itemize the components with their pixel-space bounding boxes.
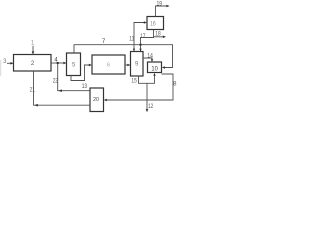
wire box 6 to box 9 left	[125, 64, 129, 66]
box 10	[148, 62, 162, 73]
box 9	[131, 52, 144, 77]
wire stream 13 from box 5 bottom to box 6 left	[71, 65, 91, 81]
svg-text:11: 11	[129, 37, 135, 43]
wire stream 4 from box 2 to box 5	[51, 62, 65, 64]
svg-text:16: 16	[150, 21, 156, 27]
svg-text:18: 18	[155, 31, 161, 37]
wire stream 14 box 9 right to box 10 top	[143, 58, 152, 61]
svg-text:17: 17	[140, 34, 146, 40]
wire stream 17 from box 16 bottom down into box 9 top	[141, 30, 154, 52]
svg-text:10: 10	[151, 66, 158, 72]
box 16	[147, 17, 164, 30]
svg-text:12: 12	[148, 104, 154, 110]
scan smudge left edge	[0, 60, 1, 76]
svg-text:15: 15	[131, 79, 137, 85]
wire stream 1 into box 2 top	[32, 46, 34, 54]
box 20	[90, 88, 104, 112]
wire stream 12 down and out	[146, 83, 148, 111]
wire stream 11 from box 9 top up to box 16 left	[134, 23, 146, 52]
svg-text:22: 22	[53, 78, 59, 84]
svg-text:20: 20	[93, 97, 99, 103]
svg-text:19: 19	[157, 1, 163, 7]
wire stream 19 from box 16 top	[156, 6, 169, 17]
node junction 4/22	[57, 62, 59, 64]
svg-text:21: 21	[30, 88, 36, 94]
wire stream 7 bus from box 5 top across to box 10 right	[74, 45, 173, 68]
svg-text:13: 13	[82, 84, 88, 90]
box 5	[67, 53, 81, 76]
svg-text:6: 6	[107, 62, 110, 68]
wire stream 8 box 10 to box 20 right	[105, 74, 173, 100]
wire stream 22 from box 20 left to junction	[58, 64, 90, 91]
wire stream 15 box 9 bottom to box 10 bottom	[139, 74, 155, 83]
box 2	[14, 55, 52, 72]
wire stream 21 from box 2 bottom to box 20 left	[34, 71, 91, 105]
node dot on bus	[140, 44, 142, 46]
wire stream 3 into box 2 left	[7, 62, 13, 64]
svg-text:14: 14	[147, 54, 153, 60]
box 6	[92, 55, 125, 74]
wire stream 18 out of box 16 bottom to right	[154, 36, 165, 38]
